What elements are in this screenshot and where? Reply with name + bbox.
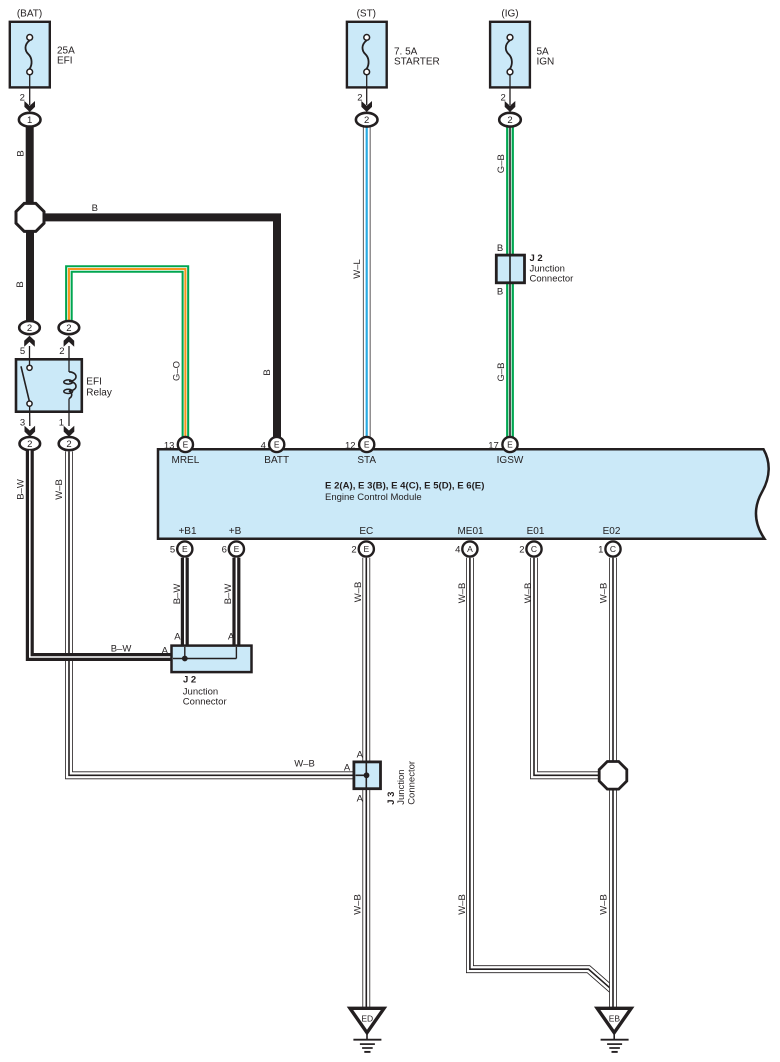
wire G-B from fuse IGN to IGSW pin 17 bbox=[506, 126, 514, 438]
wire G-O from relay pin 2 oval to MREL pin 13 bbox=[69, 269, 185, 438]
svg-text:EC: EC bbox=[359, 526, 373, 537]
svg-text:A: A bbox=[162, 646, 169, 657]
svg-text:A: A bbox=[228, 632, 235, 643]
svg-text:4: 4 bbox=[455, 545, 460, 556]
svg-text:5: 5 bbox=[20, 346, 25, 357]
svg-text:Junction: Junction bbox=[396, 769, 407, 804]
svg-text:A: A bbox=[174, 632, 181, 643]
svg-text:E: E bbox=[182, 544, 188, 554]
svg-text:EFI: EFI bbox=[57, 55, 73, 66]
svg-text:A: A bbox=[357, 793, 364, 804]
svg-text:IGN: IGN bbox=[537, 56, 555, 67]
svg-text:Engine Control Module: Engine Control Module bbox=[325, 492, 422, 503]
svg-text:E: E bbox=[364, 440, 370, 450]
wire W-B from ECM pin E02 to ground EB bbox=[609, 558, 617, 1009]
svg-text:2: 2 bbox=[66, 439, 71, 450]
fuse EFI 25A (BAT) bbox=[10, 9, 75, 88]
wire B-W from relay pin 3 oval to J2 junction connector bbox=[30, 451, 173, 658]
arrow down from relay pin 1 bbox=[64, 426, 75, 437]
svg-text:Connector: Connector bbox=[530, 274, 574, 285]
arrow down to connector 2 bbox=[361, 101, 372, 112]
svg-text:Junction: Junction bbox=[530, 263, 565, 274]
svg-text:2: 2 bbox=[519, 545, 524, 556]
wire W-B from ECM pin E01 to node octagon bbox=[534, 558, 601, 776]
fuse STARTER 7.5A (ST) bbox=[347, 9, 440, 88]
svg-text:C: C bbox=[610, 544, 616, 554]
svg-text:(BAT): (BAT) bbox=[17, 9, 42, 20]
svg-text:W–B: W–B bbox=[353, 582, 364, 603]
arrow down from relay pin 3 bbox=[25, 426, 36, 437]
connector oval 2 bbox=[356, 113, 378, 127]
arrow up into oval bbox=[64, 336, 75, 347]
svg-text:2: 2 bbox=[27, 439, 32, 450]
node octagon junction E01/E02 bbox=[599, 762, 627, 790]
ECM pin 17 IGSW bbox=[488, 437, 524, 466]
svg-text:W–B: W–B bbox=[457, 583, 468, 604]
connector oval 2 below relay pin 1 bbox=[59, 437, 80, 450]
connector oval 2 above relay pin 5 bbox=[19, 321, 40, 334]
svg-text:G–O: G–O bbox=[172, 361, 183, 381]
ECM pin 4 ME01 bbox=[455, 526, 484, 557]
wire W-B from ECM pin EC to ground ED bbox=[362, 558, 370, 1009]
svg-text:STARTER: STARTER bbox=[394, 56, 440, 67]
svg-text:Relay: Relay bbox=[86, 387, 112, 398]
svg-text:ED: ED bbox=[361, 1013, 373, 1023]
svg-text:W–B: W–B bbox=[294, 759, 315, 770]
ground ED bbox=[350, 1008, 384, 1052]
ECM Engine Control Module box bbox=[158, 449, 769, 539]
svg-text:B: B bbox=[15, 281, 26, 287]
svg-text:C: C bbox=[531, 544, 537, 554]
svg-text:W–B: W–B bbox=[457, 894, 468, 915]
svg-text:E: E bbox=[363, 544, 369, 554]
svg-text:EB: EB bbox=[609, 1013, 621, 1023]
svg-text:B–W: B–W bbox=[223, 584, 234, 605]
wire B-W from ECM pin 6 +B to J2 bbox=[232, 558, 240, 647]
svg-text:EFI: EFI bbox=[86, 376, 102, 387]
svg-text:+B: +B bbox=[229, 526, 242, 537]
ECM pin 4 BATT bbox=[261, 437, 290, 466]
wire W-L from fuse STARTER to STA pin 12 bbox=[363, 126, 371, 438]
svg-text:B: B bbox=[262, 369, 273, 375]
fuse IGN 5A (IG) bbox=[490, 9, 554, 88]
svg-text:17: 17 bbox=[488, 440, 499, 451]
svg-text:B–W: B–W bbox=[111, 644, 132, 655]
svg-text:G–B: G–B bbox=[496, 362, 507, 381]
wire W-B from ECM pin ME01 joining E02 wire bbox=[470, 558, 613, 991]
ECM pin 6 +B bbox=[222, 526, 244, 557]
svg-text:G–B: G–B bbox=[496, 154, 507, 173]
relay pin 2 lead bbox=[68, 346, 70, 360]
svg-text:13: 13 bbox=[164, 440, 175, 451]
svg-text:6: 6 bbox=[222, 545, 227, 556]
svg-text:E: E bbox=[507, 440, 513, 450]
svg-text:2: 2 bbox=[364, 115, 369, 126]
svg-text:(ST): (ST) bbox=[357, 9, 376, 20]
J3 junction connector name rotated bbox=[386, 761, 418, 805]
relay pin 5 lead bbox=[29, 346, 31, 360]
wire W-B from relay pin 1 oval to J3 junction connector bbox=[69, 451, 355, 775]
svg-text:Connector: Connector bbox=[183, 697, 227, 708]
pin 2 of fuse IGN bbox=[509, 75, 511, 105]
wire B from octagon down to EFI relay pin 5 oval bbox=[26, 229, 34, 322]
svg-text:5: 5 bbox=[170, 545, 175, 556]
svg-text:A: A bbox=[357, 749, 364, 760]
svg-text:STA: STA bbox=[357, 455, 376, 466]
svg-text:B: B bbox=[16, 150, 27, 156]
svg-text:B–W: B–W bbox=[16, 479, 27, 500]
svg-text:(IG): (IG) bbox=[501, 9, 518, 20]
wire B horizontal from octagon to BATT pin bbox=[42, 217, 277, 438]
wire B from fuse EFI oval to node octagon bbox=[26, 126, 34, 205]
svg-text:A: A bbox=[467, 544, 473, 554]
svg-text:E: E bbox=[183, 440, 189, 450]
svg-text:1: 1 bbox=[59, 417, 64, 428]
svg-text:E02: E02 bbox=[603, 526, 621, 537]
svg-text:E: E bbox=[274, 440, 280, 450]
pin 2 of fuse STARTER bbox=[366, 75, 368, 105]
svg-text:2: 2 bbox=[66, 323, 71, 334]
svg-text:ME01: ME01 bbox=[457, 526, 484, 537]
svg-text:2: 2 bbox=[27, 323, 32, 334]
svg-text:1: 1 bbox=[27, 115, 32, 126]
svg-text:BATT: BATT bbox=[264, 455, 289, 466]
ECM pin 13 MREL bbox=[164, 437, 200, 466]
svg-text:J 2: J 2 bbox=[183, 674, 196, 685]
svg-text:B: B bbox=[497, 287, 503, 298]
svg-text:E 2(A), E 3(B), E 4(C), E 5(D): E 2(A), E 3(B), E 4(C), E 5(D), E 6(E) bbox=[325, 480, 484, 491]
junction connector J2 wide bbox=[172, 646, 252, 673]
svg-text:W–B: W–B bbox=[599, 894, 610, 915]
pin 2 of fuse EFI bbox=[29, 75, 31, 105]
arrow up into oval bbox=[24, 336, 35, 347]
ECM pin 12 STA bbox=[345, 437, 376, 466]
svg-text:+B1: +B1 bbox=[178, 526, 197, 537]
svg-text:E01: E01 bbox=[527, 526, 545, 537]
svg-text:Connector: Connector bbox=[406, 761, 417, 805]
ECM pin 5 +B1 bbox=[170, 526, 197, 557]
svg-text:3: 3 bbox=[20, 417, 25, 428]
wire B-W from ECM pin 5 +B1 to J2 bbox=[181, 558, 189, 647]
svg-text:B–W: B–W bbox=[172, 584, 183, 605]
connector oval 1 bbox=[19, 113, 41, 127]
svg-text:W–B: W–B bbox=[54, 479, 65, 500]
svg-text:12: 12 bbox=[345, 440, 356, 451]
svg-text:W–B: W–B bbox=[599, 583, 610, 604]
svg-text:2: 2 bbox=[507, 115, 512, 126]
ground EB bbox=[597, 1008, 631, 1052]
J2 junction connector name bbox=[183, 674, 227, 707]
junction connector J3 bbox=[354, 762, 381, 789]
connector oval 2 bbox=[499, 113, 521, 127]
J2 junction connector name bbox=[530, 253, 574, 285]
relay EFI Relay bbox=[16, 358, 112, 426]
svg-text:E: E bbox=[234, 544, 240, 554]
arrow down to connector 2 bbox=[505, 101, 516, 112]
svg-text:2: 2 bbox=[351, 545, 356, 556]
svg-text:B: B bbox=[497, 243, 503, 254]
ECM pin 1 E02 bbox=[598, 526, 621, 557]
ECM pin 2 E01 bbox=[519, 526, 545, 557]
svg-text:2: 2 bbox=[59, 346, 64, 357]
svg-text:B: B bbox=[92, 203, 98, 214]
junction connector J2 on G-B wire bbox=[496, 255, 524, 283]
svg-text:MREL: MREL bbox=[172, 455, 200, 466]
svg-text:1: 1 bbox=[598, 545, 603, 556]
arrow down to connector 1 bbox=[24, 101, 35, 112]
svg-text:IGSW: IGSW bbox=[497, 455, 524, 466]
node octagon junction of B wires bbox=[16, 203, 44, 231]
svg-text:2: 2 bbox=[20, 92, 25, 103]
ECM pin 2 EC bbox=[351, 526, 373, 557]
svg-text:W–L: W–L bbox=[352, 259, 363, 279]
svg-text:4: 4 bbox=[261, 440, 266, 451]
svg-text:W–B: W–B bbox=[353, 894, 364, 915]
svg-text:A: A bbox=[344, 763, 351, 774]
connector oval 2 below relay pin 3 bbox=[20, 437, 41, 450]
connector oval 2 above relay pin 2 bbox=[59, 321, 80, 334]
svg-text:W–B: W–B bbox=[523, 583, 534, 604]
